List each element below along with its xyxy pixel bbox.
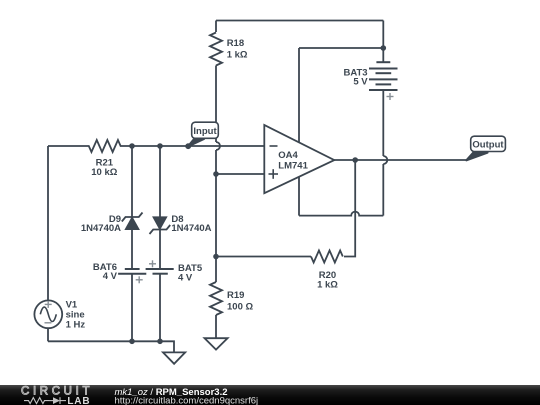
wire V+ rail [299, 47, 383, 49]
svg-text:LAB: LAB [67, 396, 90, 405]
ground (bottom rail) [163, 352, 185, 363]
resistor R19 [210, 282, 222, 315]
battery BAT3 [369, 62, 398, 90]
source V1 sine [40, 307, 56, 321]
svg-text:1 kΩ: 1 kΩ [227, 49, 248, 60]
wire BAT3 column to V- rail [382, 164, 384, 216]
svg-text:4 V: 4 V [178, 272, 193, 283]
wire BAT3 top [382, 21, 384, 63]
svg-text:1N4740A: 1N4740A [81, 223, 121, 234]
wire BAT5 to bottom rail [159, 274, 161, 342]
svg-text:http://circuitlab.com/cedn9qcn: http://circuitlab.com/cedn9qcnsrf6j [115, 396, 259, 405]
wire BAT6 to bottom rail [131, 274, 133, 342]
svg-text:R19: R19 [227, 290, 244, 301]
wire V- rail with hop [299, 212, 383, 216]
svg-text:Input: Input [193, 126, 217, 137]
wire D9 to BAT6 [131, 230, 133, 270]
svg-text:OA4: OA4 [278, 150, 298, 161]
diode D9 (zener, pointing up) [122, 213, 143, 230]
wire V1 bottom [47, 328, 49, 341]
source V1 [34, 300, 62, 328]
wire feedback column [344, 160, 355, 257]
svg-text:1 kΩ: 1 kΩ [317, 279, 338, 290]
resistor R20 [311, 251, 343, 263]
node Input flag [185, 122, 218, 149]
wire bottom rail [48, 341, 174, 352]
footer bar [0, 385, 540, 405]
junction BAT5/bottom rail [157, 339, 163, 345]
junction D9/input node [129, 143, 135, 149]
junction BAT6/bottom rail [129, 339, 135, 345]
wire D9 column top [131, 146, 133, 217]
op-amp OA4 triangle [264, 125, 334, 193]
node Output flag [467, 136, 506, 160]
diode D8 (zener, pointing down) [150, 217, 171, 234]
wire hop at output crossing [383, 156, 387, 164]
wire R19 leads [215, 257, 217, 283]
svg-text:Output: Output [472, 140, 504, 151]
svg-text:5 V: 5 V [353, 77, 368, 88]
source V1 minus mark [45, 322, 52, 324]
svg-text:100 Ω: 100 Ω [227, 302, 253, 313]
wire R20 to R19 junction [216, 256, 311, 258]
svg-text:1N4740A: 1N4740A [171, 223, 211, 234]
junction output/feedback [352, 157, 358, 163]
resistor R18 [210, 33, 222, 66]
source V1 plus mark [45, 301, 52, 308]
footer logo zigzag-diode [24, 397, 66, 404]
svg-text:1 Hz: 1 Hz [66, 320, 86, 331]
wire top rail [216, 20, 383, 22]
wire input node horizontal [132, 145, 264, 147]
op-amp minus symbol [270, 145, 278, 147]
svg-text:10 kΩ: 10 kΩ [91, 167, 117, 178]
resistor R21 [48, 140, 132, 152]
wire plus input [216, 173, 264, 175]
battery BAT3 plus mark [387, 93, 394, 100]
wire input column down to plus junction and R19 junction [215, 150, 217, 257]
ground (R19) [205, 338, 228, 349]
wire D8 column top [159, 146, 161, 217]
junction BAT3/V+ rail [381, 45, 387, 51]
svg-text:V1: V1 [66, 299, 78, 310]
wire output [334, 159, 467, 161]
battery BAT5 plus mark [149, 260, 156, 267]
battery BAT6 plus mark [136, 276, 143, 283]
wire left column [47, 146, 49, 301]
battery BAT5 [146, 269, 174, 274]
junction plus input [213, 171, 219, 177]
wire op-amp V+ pin [298, 48, 300, 142]
wire D8 to BAT5 [159, 230, 161, 270]
wire BAT3 bottom to hop [382, 90, 384, 156]
battery BAT6 [118, 269, 146, 274]
wire hop at input crossing [216, 142, 220, 150]
wire op-amp V- pin [298, 177, 300, 216]
svg-text:LM741: LM741 [278, 161, 308, 172]
junction D8/input node [157, 143, 163, 149]
wire R18 bottom to hop [215, 66, 217, 143]
wire R18 top lead [215, 21, 217, 33]
junction R19/R20 [213, 254, 219, 260]
op-amp plus symbol [269, 169, 279, 179]
svg-text:R18: R18 [227, 38, 244, 49]
svg-text:4 V: 4 V [103, 271, 118, 282]
